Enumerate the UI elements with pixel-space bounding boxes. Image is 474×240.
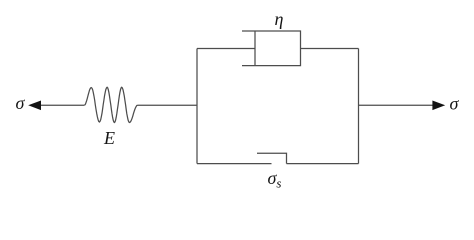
svg-text:σ: σ	[16, 93, 26, 113]
right arrow head	[432, 101, 445, 111]
wire top branch left	[197, 48, 255, 50]
svg-text:σ: σ	[450, 94, 460, 114]
svg-text:η: η	[275, 9, 284, 29]
svg-text:E: E	[103, 128, 115, 148]
wire top branch right	[301, 48, 359, 50]
wire node B to right arrow	[359, 104, 434, 106]
node A left vertical bar	[196, 49, 198, 164]
wire bottom branch right	[287, 163, 359, 165]
spring E	[84, 87, 137, 122]
friction slider sigma_s plate	[257, 153, 287, 163]
dashpot eta piston plate	[254, 31, 256, 66]
node B right vertical bar	[358, 49, 360, 164]
svg-text:σs: σs	[268, 168, 282, 191]
left arrow head	[28, 101, 41, 111]
wire left arrow to spring	[40, 104, 84, 106]
wire bottom branch left	[197, 163, 272, 165]
dashpot eta cylinder	[242, 31, 301, 66]
wire spring to node A	[138, 104, 198, 106]
